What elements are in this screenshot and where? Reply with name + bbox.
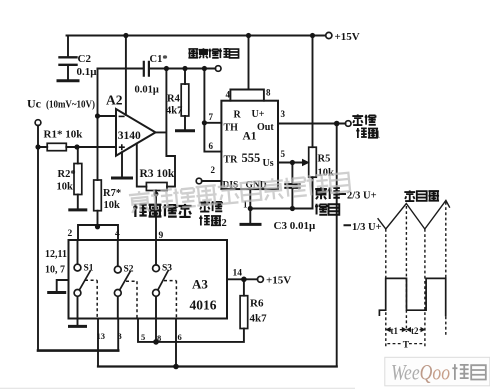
- svg-text:t1: t1: [391, 326, 399, 336]
- svg-text:3: 3: [118, 331, 122, 341]
- svg-text:R1* 10k: R1* 10k: [44, 129, 84, 141]
- svg-text:0.1μ: 0.1μ: [77, 66, 98, 78]
- svg-text:Out: Out: [257, 122, 274, 133]
- svg-text:3140: 3140: [118, 130, 141, 142]
- svg-text:4k7: 4k7: [250, 313, 268, 325]
- svg-text:10k: 10k: [318, 168, 335, 179]
- svg-text:9: 9: [159, 231, 164, 241]
- svg-text:Us: Us: [263, 158, 274, 169]
- svg-text:S2: S2: [124, 265, 134, 275]
- svg-text:13: 13: [97, 331, 106, 341]
- svg-text:4k7: 4k7: [166, 106, 182, 117]
- svg-text:R: R: [234, 110, 242, 121]
- svg-text:R5: R5: [318, 154, 331, 165]
- svg-text:4016: 4016: [190, 298, 217, 313]
- svg-text:8: 8: [266, 88, 271, 98]
- svg-text:U+: U+: [252, 109, 265, 120]
- svg-text:R3 10k: R3 10k: [140, 168, 175, 180]
- svg-text:5: 5: [141, 332, 145, 342]
- svg-text:C3 0.01μ: C3 0.01μ: [274, 220, 316, 232]
- svg-text:14: 14: [233, 269, 243, 279]
- svg-text:A2: A2: [106, 93, 123, 108]
- svg-text:T: T: [403, 340, 410, 350]
- svg-text:C2: C2: [78, 53, 92, 65]
- svg-text:5: 5: [281, 149, 286, 159]
- svg-text:2/3 U+: 2/3 U+: [347, 191, 377, 202]
- svg-text:t2: t2: [411, 326, 419, 336]
- svg-text:S3: S3: [162, 264, 172, 274]
- svg-text:1/3 U+: 1/3 U+: [352, 222, 382, 233]
- svg-text:10, 7: 10, 7: [45, 265, 65, 276]
- svg-text:+15V: +15V: [266, 275, 291, 287]
- svg-text:2: 2: [211, 165, 216, 175]
- svg-text:WeeQoo: WeeQoo: [391, 360, 450, 385]
- svg-text:4: 4: [115, 229, 120, 239]
- svg-text:A1: A1: [243, 131, 257, 143]
- svg-text:TR: TR: [224, 155, 239, 166]
- svg-text:6: 6: [178, 332, 182, 342]
- svg-text:7: 7: [209, 112, 214, 122]
- svg-text:6: 6: [209, 141, 214, 151]
- svg-text:S1: S1: [84, 264, 94, 274]
- svg-text:C1*: C1*: [150, 54, 168, 65]
- svg-text:10k: 10k: [104, 200, 121, 211]
- svg-text:R4: R4: [167, 94, 181, 105]
- svg-text:Uc: Uc: [27, 97, 42, 111]
- svg-text:4: 4: [226, 90, 231, 100]
- svg-text:0.01μ: 0.01μ: [135, 85, 159, 96]
- svg-text:2: 2: [222, 218, 227, 229]
- svg-text:555: 555: [242, 151, 261, 165]
- svg-text:10k: 10k: [57, 182, 74, 193]
- svg-text:R6: R6: [250, 298, 264, 310]
- svg-text:A3: A3: [192, 277, 208, 292]
- svg-text:R2*: R2*: [58, 169, 76, 180]
- svg-text:2: 2: [68, 229, 73, 239]
- svg-text:TH: TH: [224, 123, 239, 134]
- svg-text:3: 3: [281, 109, 286, 119]
- svg-text:R7*: R7*: [103, 188, 121, 199]
- svg-text:12,11: 12,11: [45, 249, 67, 260]
- svg-text:+15V: +15V: [335, 31, 360, 43]
- svg-text:(10mV~10V): (10mV~10V): [46, 100, 95, 111]
- svg-text:8: 8: [157, 333, 161, 343]
